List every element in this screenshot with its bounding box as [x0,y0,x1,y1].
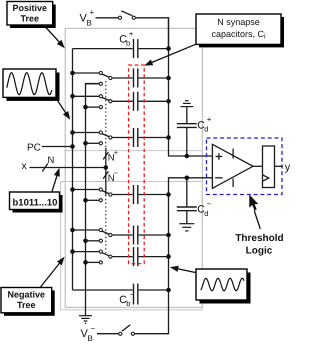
dotted switch gang link upper [105,81,107,148]
wire synapse 3 pole to capacitor [112,137,133,139]
svg-text:N synapse: N synapse [217,17,260,27]
wire PC input [42,146,73,148]
svg-text:b1011...10: b1011...10 [13,198,58,209]
wire synapse 3 upper contact from positive rail [73,132,100,134]
ground for Cd+ [180,101,193,107]
oscilloscope sine icon (positive input waveform) [3,69,60,101]
wire synapse 1 pole to capacitor [112,77,133,79]
svg-text:N: N [48,155,55,166]
switch S3 (SPDT synapse switch) [99,131,112,145]
svg-text:+: + [129,30,134,39]
switch S4 (SPDT synapse switch) [99,188,112,202]
wire capacitor C1 to summing rail [139,77,169,79]
wire synapse 6 lower contact from negative rail [86,261,100,263]
wire synapse 4 upper contact from positive rail [73,189,100,191]
wire synapse 1 upper contact from positive rail [73,72,100,74]
wire Cd- to ground [186,211,188,224]
wire VB- lead [97,333,119,335]
wire synapse 6 upper contact from positive rail [73,251,100,253]
svg-text:d: d [204,209,208,218]
wire from VB+ switch to positive rail [136,18,169,49]
svg-text:b: b [126,299,130,308]
switch SB- (VB- bias switch) [119,325,135,336]
svg-text:−: − [91,324,96,333]
arrow from Positive Tree box [45,27,65,49]
bus-width slash N- [103,171,108,179]
svg-text:B: B [87,19,92,28]
wire synapse 3 lower contact from negative rail [86,142,100,144]
wire N+ / N- control line [105,148,107,195]
svg-text:capacitors, Ci: capacitors, Ci [211,29,266,41]
negative tree inner boundary box [61,182,203,310]
wire synapse 4 pole to capacitor [112,194,133,196]
bus-width slash on x input [42,164,48,172]
label C0- [119,290,135,308]
svg-text:PC: PC [27,142,41,153]
capacitor C2 (synapse capacitor) [134,92,138,111]
outer neuron boundary box [65,28,202,307]
label C0+ [119,30,134,48]
label N+ [108,148,119,164]
capacitor C3 (synapse capacitor) [134,128,138,147]
callout box: b1011...10 [10,192,63,213]
wire synapse 6 pole to capacitor [112,256,133,258]
wire comparator output to latch [253,165,263,167]
op-amp U1 (latched comparator) [212,144,253,188]
svg-text:−: − [114,169,119,178]
wire synapse 2 pole to capacitor [112,100,133,102]
arrow from Negative Tree box [41,257,65,287]
dotted switch gang link lower [105,195,107,253]
wire y output [275,165,284,167]
positive tree inner boundary line [65,150,202,152]
svg-text:Negative: Negative [8,290,46,300]
wire synapse 2 upper contact from positive rail [73,95,100,97]
svg-text:+: + [114,148,119,157]
wire capacitor C6 to summing rail [139,256,169,258]
wire negative synapse summing rail [169,178,213,290]
wire synapse 2 lower contact from negative rail [86,106,100,108]
wire ground to Cd+ [186,107,188,124]
switch S1 (SPDT synapse switch) [99,71,112,85]
capacitor Cd- [177,207,197,211]
capacitor C0+ [134,39,138,58]
svg-text:Logic: Logic [246,246,273,257]
wire C0+ left segment [73,48,133,50]
wire synapse 4 lower contact from negative rail [86,199,100,201]
svg-text:Threshold: Threshold [235,233,283,244]
callout box: N synapse capacitors, Ci [196,14,284,47]
wire C0- left segment [73,289,133,291]
ground (negative rail bottom) [79,316,92,324]
blue dashed box: threshold logic [207,138,283,195]
wire C0- right segment [139,289,169,291]
oscilloscope sine icon (negative input waveform) [196,269,251,304]
wire VB+ lead [96,17,119,19]
switch S5 (SPDT synapse switch) [99,228,112,242]
svg-text:Positive: Positive [13,3,48,13]
svg-text:+: + [207,115,212,124]
svg-text:y: y [285,161,291,173]
capacitor C4 (synapse capacitor) [134,185,138,204]
svg-text:B: B [88,334,93,343]
svg-text:b: b [126,38,130,47]
wire synapse 1 lower contact from negative rail [86,83,100,85]
svg-text:d: d [204,125,208,134]
svg-text:−: − [207,199,212,208]
wire synapse 5 upper contact from positive rail [73,229,100,231]
wire C0+ right segment [139,48,169,50]
wire capacitor C5 to summing rail [139,234,169,236]
arrow from positive waveform icon [58,101,71,120]
label Cd- [197,199,212,217]
capacitor C0- [134,284,138,305]
capacitor C5 (synapse capacitor) [134,226,138,245]
wire synapse 5 lower contact from negative rail [86,240,100,242]
wire x input bus [30,167,106,169]
capacitor C1 (synapse capacitor) [134,69,138,88]
switch SB+ (VB+ bias switch) [118,11,135,20]
switch S2 (SPDT synapse switch) [99,95,112,109]
callout box: Negative Tree [1,288,55,316]
wire from VB- switch to negative rail [135,290,169,334]
capacitor C6 (synapse capacitor) [134,247,138,266]
label Threshold Logic [235,233,283,257]
switch S6 (SPDT synapse switch) [99,250,112,264]
callout box: Positive Tree [7,2,56,29]
label N- [108,169,119,184]
wire comparator - input to Cd- [186,178,188,207]
svg-text:Tree: Tree [17,300,36,310]
arrow from Threshold Logic label [249,195,260,230]
flip-flop U2 (output latch) [263,146,275,188]
arrow from negative waveform icon [170,266,196,273]
wire capacitor C4 to summing rail [139,194,169,196]
label Cd+ [197,115,212,134]
wire capacitor C3 to summing rail [139,137,169,139]
svg-text:x: x [22,160,28,172]
svg-text:−: − [130,290,135,299]
bus-width slash N+ [103,152,108,160]
label VB- [81,324,96,343]
arrow from b1011...10 box [52,168,60,192]
wire capacitor C2 to summing rail [139,100,169,102]
label VB+ [80,8,95,28]
wire positive-contact rail (left bus) [72,49,74,290]
ground for Cd- [179,224,194,231]
svg-text:Tree: Tree [21,14,40,24]
wire positive synapse summing rail [169,18,213,156]
wire Cd+ to comparator + input [186,127,188,156]
wire synapse 5 pole to capacitor [112,234,133,236]
svg-text:+: + [90,8,95,17]
arrow from N synapse capacitors box [144,44,196,65]
red dashed box: N synapse capacitors [129,65,145,264]
wire negative-contact rail (second bus) [86,84,101,316]
capacitor Cd+ [177,124,197,128]
